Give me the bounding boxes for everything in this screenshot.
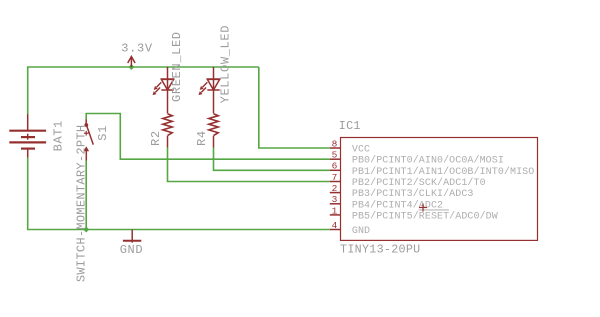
- wire R2 bottom to PB2: [168, 148, 330, 182]
- LED D green: [153, 67, 175, 113]
- battery BAT1: [9, 114, 46, 158]
- wire R4 bottom to PB1: [214, 148, 330, 171]
- svg-text:YELLOW_LED: YELLOW_LED: [218, 25, 232, 104]
- switch S1: [84, 120, 94, 161]
- svg-text:3: 3: [332, 194, 338, 205]
- svg-text:R4: R4: [195, 130, 209, 146]
- junction switch bottom: [83, 227, 89, 233]
- svg-text:8: 8: [332, 138, 338, 149]
- IC IC1 TINY13-20PU body: [341, 138, 538, 241]
- svg-text:IC1: IC1: [339, 119, 361, 133]
- overline RESET: [419, 209, 449, 211]
- pin numbers: [332, 138, 338, 231]
- wire battery bottom to bottom rail: [28, 158, 330, 230]
- wire VCC riser to IC pin 8: [259, 67, 330, 148]
- svg-text:VCC: VCC: [352, 145, 370, 156]
- svg-text:GREEN_LED: GREEN_LED: [170, 31, 184, 102]
- svg-text:PB5/PCINT5/RESET/ADC0/DW: PB5/PCINT5/RESET/ADC0/DW: [352, 210, 498, 222]
- LED D yellow: [199, 67, 221, 113]
- supply symbol 3.3V arrow: [128, 57, 135, 68]
- origin cross IC1: [419, 204, 427, 212]
- svg-text:4: 4: [332, 220, 338, 231]
- svg-text:PB0/PCINT0/AIN0/OC0A/MOSI: PB0/PCINT0/AIN0/OC0A/MOSI: [352, 155, 504, 167]
- wire switch top to PB0: [86, 114, 330, 160]
- svg-text:R2: R2: [149, 130, 163, 146]
- svg-text:PB3/PCINT3/CLKI/ADC3: PB3/PCINT3/CLKI/ADC3: [352, 188, 474, 200]
- svg-text:3.3V: 3.3V: [121, 41, 153, 55]
- svg-text:2: 2: [332, 183, 338, 194]
- svg-text:S1: S1: [96, 125, 110, 141]
- resistor R4: [209, 114, 218, 148]
- resistor R2: [163, 114, 172, 148]
- svg-text:PB1/PCINT1/AIN1/OC0B/INT0/MISO: PB1/PCINT1/AIN1/OC0B/INT0/MISO: [352, 166, 534, 178]
- svg-text:6: 6: [332, 161, 338, 172]
- pin stubs IC1: [330, 148, 341, 230]
- svg-text:TINY13-20PU: TINY13-20PU: [340, 243, 420, 257]
- svg-text:BAT1: BAT1: [52, 120, 66, 151]
- svg-text:SWITCH-MOMENTARY-2PTH: SWITCH-MOMENTARY-2PTH: [75, 125, 89, 283]
- svg-text:GND: GND: [120, 243, 144, 257]
- svg-text:PB2/PCINT2/SCK/ADC1/T0: PB2/PCINT2/SCK/ADC1/T0: [352, 177, 486, 189]
- pin names: [352, 145, 534, 238]
- ground symbol GND: [123, 230, 141, 243]
- junction 3.3V tap: [128, 64, 134, 70]
- svg-text:7: 7: [332, 172, 338, 183]
- svg-text:1: 1: [332, 205, 338, 216]
- svg-text:GND: GND: [352, 226, 370, 237]
- wire switch bottom to bottom rail: [85, 161, 87, 230]
- svg-text:5: 5: [332, 150, 338, 161]
- wire top rail VCC net: [28, 67, 259, 114]
